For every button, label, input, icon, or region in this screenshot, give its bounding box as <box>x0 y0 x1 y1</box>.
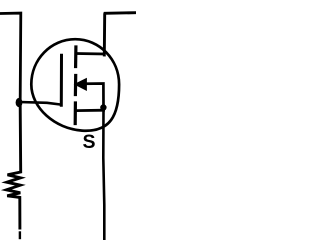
node: body-source junction <box>100 104 106 110</box>
wire: top-left horizontal and left vertical rail <box>0 13 21 99</box>
body arrow of MOSFET (points left into channel) <box>75 79 86 90</box>
drain stub inside envelope <box>77 52 105 55</box>
transistor Q1 envelope (circle) <box>31 39 119 131</box>
wire: gate lead from junction to gate plate <box>20 102 61 105</box>
channel segment (drain) <box>74 47 78 67</box>
source stub inside envelope <box>77 109 104 112</box>
channel segment (source) <box>74 103 77 124</box>
wire: drain lead up to top-right corner and right edge <box>104 13 136 55</box>
svg-text:S: S <box>83 131 96 153</box>
node: gate/resistor junction <box>16 98 23 107</box>
channel segment (body) <box>74 76 77 95</box>
wire: body tie from arrow to source stub <box>86 84 104 108</box>
resistor R1 <box>6 106 20 228</box>
wire: source lead down to bottom edge <box>103 110 104 240</box>
gate plate of MOSFET <box>60 55 63 105</box>
wire: bottom stub below resistor <box>19 233 21 239</box>
